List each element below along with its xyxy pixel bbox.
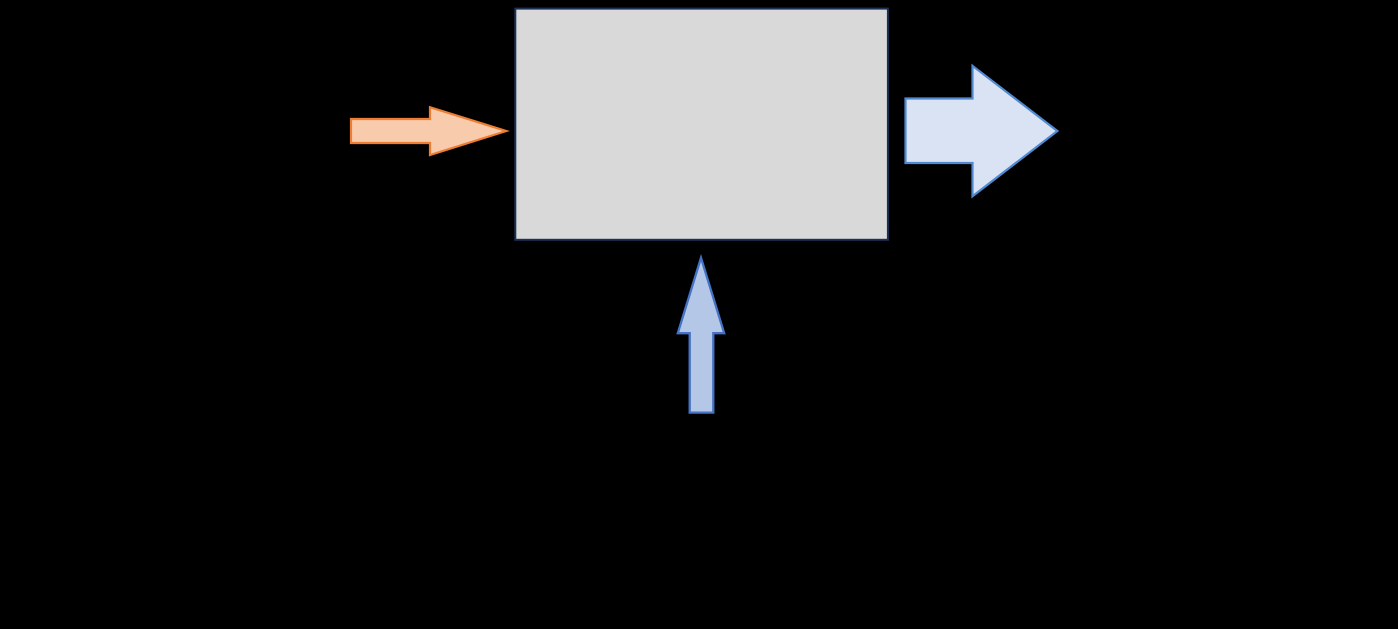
output arrow (light blue, pointing right out of box) — [906, 66, 1058, 197]
process box — [515, 9, 888, 240]
control arrow (medium blue, pointing up into bottom of box) — [678, 258, 724, 413]
input arrow (orange, pointing right into box) — [351, 107, 506, 155]
